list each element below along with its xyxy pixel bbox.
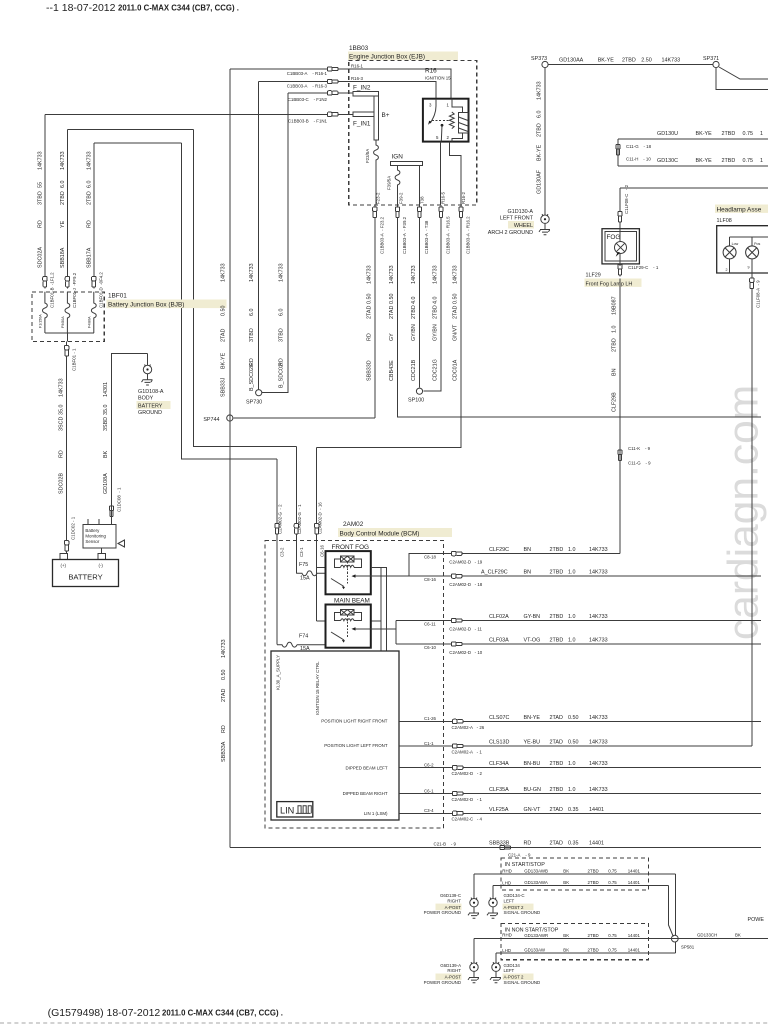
- svg-text:Engine Junction Box (EJB): Engine Junction Box (EJB): [349, 54, 425, 61]
- svg-text:2TBD: 2TBD: [588, 948, 599, 953]
- svg-text:C2AM02-D - 2: C2AM02-D - 2: [452, 771, 483, 776]
- svg-text:14401: 14401: [628, 880, 641, 885]
- svg-text:C1DC02 - 1: C1DC02 - 1: [70, 516, 75, 540]
- svg-text:1LF08: 1LF08: [717, 218, 732, 224]
- svg-text:RIGHT: RIGHT: [447, 968, 461, 973]
- svg-text:2TAD: 2TAD: [550, 715, 563, 721]
- svg-text:GROUND: GROUND: [138, 410, 162, 416]
- svg-text:C2AM02-D - 18: C2AM02-D - 18: [449, 582, 482, 587]
- svg-text:2TBD: 2TBD: [433, 305, 439, 319]
- svg-text:C8-18: C8-18: [424, 555, 437, 560]
- svg-text:BODY: BODY: [138, 396, 154, 402]
- svg-text:2TBD: 2TBD: [550, 547, 564, 553]
- svg-text:14301: 14301: [103, 382, 109, 397]
- svg-text:A-POST: A-POST: [445, 905, 462, 910]
- svg-text:MAIN BEAM: MAIN BEAM: [334, 597, 370, 604]
- svg-text:F39/5A: F39/5A: [387, 176, 392, 190]
- svg-text:2TBD: 2TBD: [722, 131, 736, 137]
- svg-text:BN: BN: [612, 368, 618, 376]
- svg-text:CLF29B: CLF29B: [612, 392, 618, 412]
- svg-text:SP581: SP581: [681, 945, 695, 950]
- svg-text:F39-2: F39-2: [399, 192, 404, 204]
- svg-text:GY/BN: GY/BN: [411, 324, 417, 341]
- svg-text:1.0: 1.0: [612, 326, 618, 334]
- svg-text:GD133AWB: GD133AWB: [524, 868, 548, 873]
- svg-text:0.50: 0.50: [453, 294, 459, 305]
- svg-text:1.0: 1.0: [568, 614, 576, 620]
- svg-text:CLS07C: CLS07C: [489, 715, 509, 721]
- svg-text:14401: 14401: [589, 807, 604, 813]
- svg-text:2AM02: 2AM02: [343, 521, 364, 528]
- svg-text:1BF01: 1BF01: [108, 293, 127, 300]
- svg-text:C6-16: C6-16: [319, 544, 324, 557]
- svg-text:POWER GROUND: POWER GROUND: [424, 910, 461, 915]
- svg-text:0.35: 0.35: [568, 807, 579, 813]
- svg-text:2TAD: 2TAD: [453, 306, 459, 319]
- svg-text:RD: RD: [279, 358, 285, 366]
- svg-text:GD133AW: GD133AW: [524, 948, 546, 953]
- svg-text:C1BB03-A - R16-1: C1BB03-A - R16-1: [287, 71, 328, 76]
- svg-text:A-POST 2: A-POST 2: [504, 975, 524, 980]
- svg-text:BN: BN: [524, 570, 532, 576]
- svg-text:Monitoring: Monitoring: [85, 534, 106, 539]
- svg-text:C1LF08-C - 2: C1LF08-C - 2: [624, 184, 629, 214]
- svg-text:35.0: 35.0: [103, 405, 109, 416]
- svg-text:6.0: 6.0: [86, 181, 92, 189]
- svg-text:0.50: 0.50: [221, 670, 227, 681]
- svg-text:BN-BU: BN-BU: [524, 761, 541, 767]
- svg-text:C6-10: C6-10: [424, 645, 437, 650]
- svg-text:YE-BU: YE-BU: [524, 740, 541, 746]
- svg-text:6.0: 6.0: [279, 309, 285, 317]
- svg-text:4.0: 4.0: [433, 297, 439, 305]
- svg-text:14K733: 14K733: [221, 639, 227, 658]
- svg-text:1.0: 1.0: [568, 638, 576, 644]
- svg-text:R16-1: R16-1: [351, 64, 364, 69]
- svg-text:SIGNAL GROUND: SIGNAL GROUND: [504, 980, 541, 985]
- svg-text:GD133AWR: GD133AWR: [524, 933, 548, 938]
- svg-text:GY/BN: GY/BN: [433, 324, 439, 341]
- svg-text:14K733: 14K733: [537, 81, 543, 100]
- svg-text:LHD: LHD: [502, 881, 511, 886]
- svg-text:SP373: SP373: [531, 56, 547, 62]
- svg-text:RHD: RHD: [502, 869, 512, 874]
- svg-text:LHD: LHD: [502, 948, 511, 953]
- svg-text:2: 2: [447, 135, 450, 140]
- svg-text:2TBD: 2TBD: [550, 787, 564, 793]
- svg-text:14K733: 14K733: [589, 715, 608, 721]
- svg-text:GD130AA: GD130AA: [559, 58, 584, 64]
- svg-text:1.0: 1.0: [568, 787, 576, 793]
- svg-text:CLF34A: CLF34A: [489, 761, 509, 767]
- svg-text:14K733: 14K733: [279, 263, 285, 282]
- svg-text:SBB33J: SBB33J: [221, 377, 227, 397]
- svg-text:RD: RD: [221, 725, 227, 733]
- svg-text:B+: B+: [382, 112, 390, 119]
- svg-text:C1BB03-A - R16-3: C1BB03-A - R16-3: [287, 84, 328, 89]
- svg-text:IGNITION 15 RELAY CTRL: IGNITION 15 RELAY CTRL: [315, 661, 320, 715]
- svg-text:14K733: 14K733: [389, 265, 395, 284]
- svg-text:C8-16: C8-16: [424, 577, 437, 582]
- svg-text:C2AM02-A - 26: C2AM02-A - 26: [452, 725, 485, 730]
- svg-text:0.75: 0.75: [608, 868, 617, 873]
- svg-text:IGNITION 15: IGNITION 15: [425, 76, 451, 81]
- svg-text:C1BF01 - 1: C1BF01 - 1: [71, 348, 76, 371]
- svg-text:ARCH 2 GROUND: ARCH 2 GROUND: [488, 230, 533, 236]
- svg-text:1: 1: [760, 158, 763, 164]
- svg-text:C6-1: C6-1: [424, 788, 434, 793]
- svg-text:POWE: POWE: [748, 917, 765, 923]
- svg-text:14K733: 14K733: [662, 58, 681, 64]
- svg-text:C11-G - 18: C11-G - 18: [626, 144, 652, 149]
- svg-text:1.0: 1.0: [568, 547, 576, 553]
- svg-text:GD130AF: GD130AF: [537, 169, 543, 194]
- svg-text:9: 9: [748, 266, 750, 270]
- svg-text:1: 1: [760, 131, 763, 137]
- svg-text:0.75: 0.75: [608, 933, 617, 938]
- svg-text:CLF35A: CLF35A: [489, 787, 509, 793]
- svg-text:0.50: 0.50: [568, 715, 579, 721]
- svg-text:BK: BK: [563, 948, 569, 953]
- svg-text:14K733: 14K733: [589, 547, 608, 553]
- svg-text:R16-3: R16-3: [351, 76, 364, 81]
- svg-text:14K733: 14K733: [38, 151, 44, 170]
- svg-text:F23-2: F23-2: [376, 192, 381, 204]
- svg-text:C11-H - 10: C11-H - 10: [626, 157, 651, 162]
- svg-text:F_IN1: F_IN1: [353, 121, 371, 128]
- svg-text:3SBD: 3SBD: [103, 417, 109, 431]
- svg-text:2TBD: 2TBD: [588, 933, 599, 938]
- svg-text:2011.0 C-MAX C344 (CB7, CCG) .: 2011.0 C-MAX C344 (CB7, CCG) .: [162, 1009, 283, 1018]
- svg-text:C2AM02-A - 1: C2AM02-A - 1: [452, 749, 483, 754]
- svg-text:14401: 14401: [628, 868, 641, 873]
- svg-text:6.0: 6.0: [537, 111, 543, 119]
- svg-text:2TBD: 2TBD: [550, 614, 564, 620]
- svg-text:R16: R16: [425, 68, 437, 75]
- svg-text:Battery Junction Box (BJB): Battery Junction Box (BJB): [108, 302, 184, 309]
- svg-text:CDC21B: CDC21B: [411, 359, 417, 381]
- svg-text:SP730: SP730: [246, 400, 262, 406]
- svg-text:14K733: 14K733: [86, 151, 92, 170]
- svg-text:1LF29: 1LF29: [586, 273, 601, 279]
- svg-text:R16-2: R16-2: [461, 191, 466, 204]
- svg-text:POWER GROUND: POWER GROUND: [424, 980, 461, 985]
- svg-text:RD: RD: [367, 333, 373, 341]
- svg-text:14K733: 14K733: [589, 638, 608, 644]
- svg-text:DIPPED BEAM LEFT: DIPPED BEAM LEFT: [346, 766, 388, 771]
- svg-text:6.0: 6.0: [249, 309, 255, 317]
- svg-text:2TAD: 2TAD: [550, 740, 563, 746]
- svg-text:0.75: 0.75: [608, 948, 617, 953]
- svg-text:BK: BK: [103, 450, 109, 458]
- svg-text:BK-YE: BK-YE: [221, 352, 227, 369]
- svg-text:BATTERY: BATTERY: [138, 404, 163, 410]
- svg-text:SBB33B: SBB33B: [489, 841, 510, 847]
- svg-text:C1BB03-A - F39.2: C1BB03-A - F39.2: [402, 216, 407, 254]
- svg-text:C2AM02-G - 2: C2AM02-G - 2: [278, 504, 283, 534]
- svg-text:CDC21G: CDC21G: [433, 359, 439, 381]
- svg-text:G3D134: G3D134: [504, 963, 521, 968]
- svg-text:2TBD: 2TBD: [537, 123, 543, 137]
- svg-text:IGN: IGN: [392, 154, 404, 161]
- svg-text:FRONT FOG: FRONT FOG: [332, 544, 370, 551]
- svg-text:Body Control Module (BCM): Body Control Module (BCM): [340, 531, 420, 538]
- svg-text:14K733: 14K733: [433, 265, 439, 284]
- svg-text:C1BB03-C - F1N2: C1BB03-C - F1N2: [288, 97, 328, 102]
- svg-text:C21-B - 9: C21-B - 9: [434, 841, 457, 846]
- svg-text:F23/5A: F23/5A: [365, 149, 370, 163]
- svg-text:C11-G - 9: C11-G - 9: [628, 461, 651, 466]
- svg-text:R16-5: R16-5: [441, 191, 446, 204]
- svg-text:C1BB03-A - R16.2: C1BB03-A - R16.2: [466, 216, 471, 254]
- svg-text:C3-4: C3-4: [424, 808, 434, 813]
- svg-text:F75: F75: [299, 562, 308, 568]
- svg-text:Front Fog Lamp LH: Front Fog Lamp LH: [586, 282, 633, 288]
- svg-text:2TAD: 2TAD: [221, 329, 227, 342]
- svg-text:C3-2: C3-2: [280, 547, 285, 557]
- svg-text:BK-YE: BK-YE: [537, 144, 543, 161]
- svg-text:G6D139-C: G6D139-C: [440, 893, 461, 898]
- svg-text:RD: RD: [58, 450, 64, 458]
- svg-text:2TBD: 2TBD: [411, 305, 417, 319]
- svg-text:14401: 14401: [628, 933, 641, 938]
- svg-text:G1D108-A: G1D108-A: [138, 389, 164, 395]
- svg-text:C1BF01-B -1F1.2: C1BF01-B -1F1.2: [50, 272, 55, 308]
- svg-text:35.0: 35.0: [58, 405, 64, 416]
- svg-text:3TBD: 3TBD: [249, 328, 255, 342]
- svg-text:2TBD: 2TBD: [550, 761, 564, 767]
- svg-text:C1-1: C1-1: [424, 741, 434, 746]
- svg-text:2011.0 C-MAX C344 (CB7, CCG) .: 2011.0 C-MAX C344 (CB7, CCG) .: [118, 4, 239, 13]
- svg-text:CBB43E: CBB43E: [389, 360, 395, 381]
- svg-text:RD: RD: [524, 841, 532, 847]
- svg-text:Sensor: Sensor: [85, 539, 99, 544]
- svg-text:Pos: Pos: [754, 242, 760, 246]
- svg-text:0.50: 0.50: [367, 294, 373, 305]
- svg-text:SP744: SP744: [203, 417, 219, 423]
- svg-text:BU-GN: BU-GN: [524, 787, 541, 793]
- svg-text:3TBD: 3TBD: [38, 191, 44, 205]
- svg-text:BN: BN: [524, 547, 532, 553]
- svg-text:C1LF29-C - 1: C1LF29-C - 1: [628, 265, 659, 270]
- svg-text:LEFT FRONT: LEFT FRONT: [500, 216, 534, 222]
- svg-text:C1LF08-A - 9: C1LF08-A - 9: [756, 280, 761, 308]
- svg-text:C1BB03-A - R16.5: C1BB03-A - R16.5: [446, 216, 451, 254]
- svg-text:2TAD: 2TAD: [221, 689, 227, 702]
- svg-text:14K733: 14K733: [589, 740, 608, 746]
- svg-text:C1DC08 - 1: C1DC08 - 1: [117, 487, 122, 512]
- svg-text:A-POST 2: A-POST 2: [504, 905, 524, 910]
- svg-text:GD130C: GD130C: [657, 158, 678, 164]
- svg-text:BN-YE: BN-YE: [524, 715, 541, 721]
- svg-text:1: 1: [447, 103, 450, 108]
- svg-text:2TBD: 2TBD: [550, 570, 564, 576]
- svg-text:Low: Low: [732, 242, 739, 246]
- svg-text:1.0: 1.0: [568, 761, 576, 767]
- svg-text:14K733: 14K733: [411, 265, 417, 284]
- svg-text:14K733: 14K733: [221, 263, 227, 282]
- svg-text:2.50: 2.50: [641, 58, 652, 64]
- svg-text:1.0: 1.0: [568, 570, 576, 576]
- svg-text:14K733: 14K733: [249, 263, 255, 282]
- svg-text:LEFT: LEFT: [504, 968, 515, 973]
- svg-text:VLF25A: VLF25A: [489, 807, 509, 813]
- svg-text:CLF03A: CLF03A: [489, 638, 509, 644]
- svg-text:LEFT: LEFT: [504, 898, 515, 903]
- svg-text:CLF02A: CLF02A: [489, 614, 509, 620]
- svg-text:G3D134-C: G3D134-C: [504, 893, 525, 898]
- svg-text:BK-YE: BK-YE: [696, 158, 713, 164]
- svg-text:0.50: 0.50: [389, 294, 395, 305]
- svg-text:A_CLF29C: A_CLF29C: [481, 570, 508, 576]
- svg-text:BK: BK: [563, 880, 569, 885]
- svg-text:0.50: 0.50: [221, 306, 227, 317]
- svg-text:(+): (+): [61, 563, 67, 568]
- svg-text:SDC02A: SDC02A: [38, 247, 44, 268]
- svg-text:CLF29C: CLF29C: [489, 547, 509, 553]
- svg-text:G1D130-A: G1D130-A: [508, 209, 534, 215]
- svg-text:55: 55: [38, 182, 44, 188]
- svg-text:SP371: SP371: [703, 56, 719, 62]
- svg-text:GY-BN: GY-BN: [524, 614, 541, 620]
- svg-text:2TBD: 2TBD: [588, 868, 599, 873]
- svg-text:F4/80A: F4/80A: [87, 316, 91, 328]
- svg-text:14K733: 14K733: [589, 570, 608, 576]
- svg-text:19B087: 19B087: [612, 296, 618, 315]
- svg-text:14K733: 14K733: [60, 151, 66, 170]
- svg-text:14K733: 14K733: [453, 265, 459, 284]
- svg-text:0.35: 0.35: [568, 841, 579, 847]
- svg-text:SBB33A: SBB33A: [221, 741, 227, 762]
- svg-text:WHEEL: WHEEL: [514, 223, 533, 229]
- svg-text:C3-1: C3-1: [299, 547, 304, 557]
- svg-text:Headlamp Asse: Headlamp Asse: [717, 207, 762, 214]
- svg-text:POSITION LIGHT RIGHT FRONT: POSITION LIGHT RIGHT FRONT: [321, 719, 388, 724]
- svg-text:C1BF01-D -0F4.2: C1BF01-D -0F4.2: [98, 272, 103, 308]
- svg-text:C2AM02-D - 19: C2AM02-D - 19: [449, 560, 482, 565]
- svg-text:5: 5: [436, 135, 439, 140]
- svg-text:14K733: 14K733: [367, 265, 373, 284]
- svg-text:POSITION LIGHT LEFT FRONT: POSITION LIGHT LEFT FRONT: [324, 743, 388, 748]
- svg-text:(-): (-): [99, 563, 104, 568]
- svg-text:2TAD: 2TAD: [550, 841, 563, 847]
- svg-text:2TAD: 2TAD: [550, 807, 563, 813]
- svg-text:GN-VT: GN-VT: [524, 807, 541, 813]
- svg-text:BK-YE: BK-YE: [696, 131, 713, 137]
- svg-text:GD130U: GD130U: [657, 131, 678, 137]
- svg-text:0.75: 0.75: [743, 131, 754, 137]
- svg-text:FOG: FOG: [607, 234, 621, 241]
- svg-text:T38: T38: [420, 196, 425, 204]
- svg-text:SBB33D: SBB33D: [367, 360, 373, 381]
- svg-text:C2AM02-D - 11: C2AM02-D - 11: [449, 626, 482, 631]
- svg-text:A-POST: A-POST: [445, 975, 462, 980]
- svg-text:2TBD: 2TBD: [722, 158, 736, 164]
- svg-text:C1BF01-J -FF9.2: C1BF01-J -FF9.2: [72, 272, 77, 308]
- svg-text:0.50: 0.50: [568, 740, 579, 746]
- svg-text:GY: GY: [389, 333, 395, 341]
- svg-text:0.75: 0.75: [608, 880, 617, 885]
- svg-text:C1-26: C1-26: [424, 716, 437, 721]
- svg-text:GN/VT: GN/VT: [453, 324, 459, 341]
- svg-text:CDC01A: CDC01A: [453, 359, 459, 381]
- svg-text:C1BB03-B - F1N1: C1BB03-B - F1N1: [288, 119, 328, 124]
- svg-text:2TBD: 2TBD: [86, 191, 92, 205]
- svg-text:GD108A: GD108A: [103, 473, 109, 494]
- svg-text:2TBD: 2TBD: [612, 338, 618, 352]
- svg-text:2TBD: 2TBD: [550, 638, 564, 644]
- svg-text:cardiagn.com: cardiagn.com: [721, 385, 768, 640]
- svg-text:Battery: Battery: [85, 528, 100, 533]
- svg-text:6.0: 6.0: [60, 181, 66, 189]
- svg-text:F1/150A: F1/150A: [39, 314, 43, 328]
- svg-text:C2AM02-D - 10: C2AM02-D - 10: [449, 650, 482, 655]
- svg-text:15A: 15A: [300, 576, 310, 582]
- svg-text:C11-K - 9: C11-K - 9: [628, 446, 651, 451]
- svg-text:C6-2: C6-2: [424, 762, 434, 767]
- svg-text:C2AM02-D - 16: C2AM02-D - 16: [317, 502, 322, 534]
- svg-text:GD133CH: GD133CH: [697, 932, 717, 937]
- svg-text:BK: BK: [563, 868, 569, 873]
- svg-text:SBB17A: SBB17A: [86, 247, 92, 268]
- svg-text:(G1579498) 18-07-2012: (G1579498) 18-07-2012: [48, 1007, 161, 1019]
- svg-text:RHD: RHD: [502, 933, 512, 938]
- svg-text:2: 2: [726, 268, 728, 272]
- svg-text:2TBD: 2TBD: [60, 191, 66, 205]
- svg-text:DIPPED BEAM RIGHT: DIPPED BEAM RIGHT: [343, 791, 388, 796]
- svg-text:C2AM02-C - 4: C2AM02-C - 4: [452, 817, 483, 822]
- svg-text:LIN 1 (LSM): LIN 1 (LSM): [364, 811, 388, 816]
- svg-text:G6D139-A: G6D139-A: [440, 963, 461, 968]
- svg-text:BK: BK: [735, 932, 741, 937]
- svg-text:14K733: 14K733: [589, 787, 608, 793]
- svg-text:--1 18-07-2012: --1 18-07-2012: [46, 2, 116, 14]
- svg-text:VT-OG: VT-OG: [524, 638, 541, 644]
- svg-text:BATTERY: BATTERY: [68, 573, 102, 582]
- svg-text:14K733: 14K733: [589, 614, 608, 620]
- svg-text:C1BB03-A - T38: C1BB03-A - T38: [424, 220, 429, 254]
- svg-text:2TAD: 2TAD: [389, 306, 395, 319]
- svg-text:KL30_A_SUPPLY: KL30_A_SUPPLY: [275, 655, 280, 690]
- svg-text:RIGHT: RIGHT: [447, 898, 461, 903]
- svg-text:SDC02B: SDC02B: [58, 473, 64, 494]
- svg-text:2TAD: 2TAD: [367, 306, 373, 319]
- svg-text:CLS13D: CLS13D: [489, 740, 509, 746]
- svg-text:3SCD: 3SCD: [58, 417, 64, 431]
- svg-text:4.0: 4.0: [411, 297, 417, 305]
- svg-text:1BB03: 1BB03: [349, 45, 369, 52]
- svg-text:YE: YE: [60, 220, 66, 228]
- svg-text:C1BB03-A - F23.2: C1BB03-A - F23.2: [379, 216, 384, 254]
- svg-text:C6-11: C6-11: [424, 621, 436, 626]
- svg-text:3: 3: [429, 103, 432, 108]
- svg-text:2TBD: 2TBD: [622, 58, 636, 64]
- svg-text:RD: RD: [86, 220, 92, 228]
- svg-text:14K733: 14K733: [589, 761, 608, 767]
- svg-text:F74: F74: [299, 634, 308, 640]
- svg-text:SBB18A: SBB18A: [60, 247, 66, 268]
- svg-text:SP100: SP100: [408, 398, 424, 404]
- svg-text:0.75: 0.75: [743, 158, 754, 164]
- svg-text:RD: RD: [38, 220, 44, 228]
- svg-text:14401: 14401: [589, 841, 604, 847]
- svg-text:LIN: LIN: [280, 806, 294, 816]
- svg-text:F9/80A: F9/80A: [61, 316, 65, 328]
- svg-text:BK: BK: [563, 933, 569, 938]
- svg-text:B_SDC02K: B_SDC02K: [249, 363, 255, 391]
- svg-text:IN START/STOP: IN START/STOP: [505, 862, 546, 868]
- svg-text:BK-YE: BK-YE: [598, 58, 615, 64]
